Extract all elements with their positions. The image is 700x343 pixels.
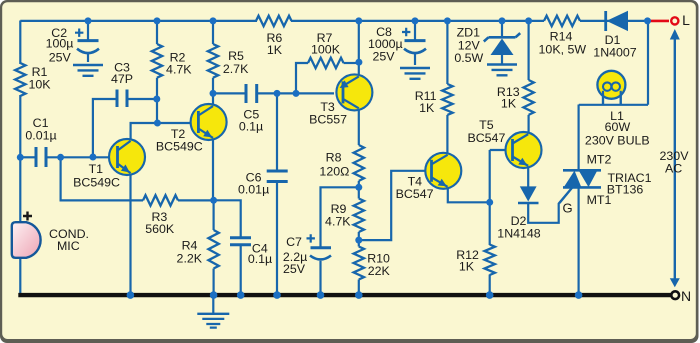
svg-text:BT136: BT136 [607,183,644,197]
svg-text:MIC: MIC [57,239,80,253]
junction [644,17,651,24]
wire [212,78,214,105]
svg-text:0.01µ: 0.01µ [25,128,56,142]
junction [355,237,362,244]
wire [489,275,491,294]
wire [358,232,360,247]
svg-text:N: N [681,288,691,304]
wire [178,199,214,201]
junction [237,291,245,299]
wire [213,92,245,94]
svg-text:BC557: BC557 [309,113,347,127]
wire [358,181,360,199]
wire [577,188,579,294]
wire [20,156,35,158]
resistor R1 [15,63,51,96]
svg-text:47P: 47P [111,72,133,86]
junction [17,154,24,161]
wire [212,21,214,44]
svg-text:22K: 22K [368,264,391,278]
wire [213,269,215,294]
wire [321,187,359,247]
ground [197,296,229,328]
junction [210,17,217,24]
svg-text:R14: R14 [550,29,573,43]
wire [240,245,242,293]
junction [85,17,92,24]
wire [528,188,572,223]
junction [317,291,325,299]
transistor T5 [467,118,541,168]
wire [19,257,21,293]
svg-text:R4: R4 [182,238,198,252]
wire [358,110,360,146]
svg-text:100µ: 100µ [46,37,74,51]
wire [580,20,649,22]
wire [276,182,278,293]
svg-text:230V BULB: 230V BULB [585,133,650,147]
wire [527,167,529,187]
resistor R10 [354,247,391,280]
wire [19,21,21,65]
wire [358,280,360,294]
svg-text:G: G [563,200,573,215]
svg-text:L: L [682,12,690,28]
svg-text:10K: 10K [28,78,51,92]
transistor T2 [156,104,227,154]
wire [20,20,257,22]
wire [93,99,116,157]
wire [448,189,490,203]
svg-text:1K: 1K [459,259,475,273]
diode D1 [593,11,637,60]
capacitor C3 [111,61,133,108]
resistor R9 [325,199,364,233]
wire [131,123,199,140]
wire [258,92,334,94]
capacitor C2 [46,21,103,76]
wire [156,78,158,123]
wire [156,21,158,44]
junction [575,291,583,299]
junction [499,17,506,24]
svg-text:ZD1: ZD1 [457,26,481,40]
resistor R3 [143,195,178,236]
wire [446,21,448,84]
condenser mic MIC [12,212,89,258]
svg-text:MT2: MT2 [587,153,612,167]
svg-text:560K: 560K [145,222,175,236]
svg-text:2.7K: 2.7K [223,62,249,76]
wire [214,200,241,237]
junction [57,154,64,161]
wire [527,115,529,132]
wire [490,149,511,151]
junction [486,199,493,206]
wire [128,98,157,100]
wire [489,202,491,245]
wire [291,20,544,22]
wire [319,261,321,293]
wire [129,174,131,293]
junction [210,197,217,204]
transistor T3 [309,74,372,126]
wire [359,171,431,240]
junction [355,184,362,191]
svg-text:1K: 1K [501,97,517,111]
junction [293,90,300,97]
junction [153,96,160,103]
resistor R12 [456,245,495,276]
svg-text:0.1µ: 0.1µ [239,120,263,134]
svg-text:25V: 25V [283,262,306,276]
wire [61,157,143,200]
svg-text:120Ω: 120Ω [319,164,349,178]
svg-text:1K: 1K [419,101,435,115]
resistor R7 [308,31,344,68]
junction [355,291,363,299]
transistor T4 [396,153,462,201]
svg-text:T1: T1 [89,162,104,176]
terminal L [648,12,691,28]
svg-text:1N4148: 1N4148 [497,227,541,241]
svg-text:R5: R5 [228,49,244,63]
wire [527,21,529,80]
svg-text:25V: 25V [49,50,72,64]
svg-text:0.1µ: 0.1µ [248,252,272,266]
resistor R2 [152,44,192,78]
junction [210,90,217,97]
svg-text:2.2K: 2.2K [177,251,203,265]
svg-text:10K, 5W: 10K, 5W [539,42,587,56]
svg-text:R8: R8 [326,151,342,165]
junction [355,59,362,66]
mains 230V AC arrow [660,29,690,287]
junction [89,154,96,161]
junction [486,291,494,299]
svg-text:C7: C7 [286,235,302,249]
capacitor C4 [230,238,272,266]
svg-text:BC549C: BC549C [156,140,203,154]
diode D2 [497,186,541,240]
wire [296,63,308,93]
wire [276,93,278,170]
wire [577,105,579,171]
resistor R8 [319,145,364,181]
wire [212,140,214,201]
svg-text:0.01µ: 0.01µ [238,182,269,196]
junction [154,120,161,127]
resistor R5 [208,44,249,78]
resistor R13 [497,80,534,115]
svg-text:1K: 1K [267,43,283,57]
junction [127,291,135,299]
svg-text:BC547: BC547 [396,187,434,201]
junction [273,291,281,299]
triac TRIAC1 [560,153,652,216]
svg-text:BC549C: BC549C [73,175,120,189]
wire [344,62,359,64]
capacitor C5 [239,84,263,134]
resistor R11 [415,84,453,115]
svg-text:100K: 100K [311,43,341,57]
svg-text:T5: T5 [479,118,494,132]
svg-text:1N4007: 1N4007 [593,45,637,59]
svg-text:25V: 25V [372,50,395,64]
wire [647,21,649,105]
junction [412,17,419,24]
svg-text:60W: 60W [605,120,631,134]
junction [154,17,161,24]
zener ZD1 [454,26,520,76]
resistor R6 [256,16,292,57]
wire [213,200,215,230]
bulb L1 [585,71,650,148]
resistor R14 [539,16,587,57]
capacitor C7 [283,234,331,276]
terminal N [671,288,691,304]
svg-text:0.5W: 0.5W [454,51,483,65]
transistor T1 [73,139,145,189]
svg-text:BC547: BC547 [467,131,505,145]
svg-text:AC: AC [665,161,682,175]
junction [355,17,362,24]
junction [210,291,218,299]
svg-text:4.7K: 4.7K [166,62,192,76]
wire [489,150,491,203]
resistor R4 [177,230,219,269]
wire [579,104,648,106]
capacitor C1 [25,116,56,167]
wire [358,21,360,75]
capacitor C6 [238,171,288,197]
svg-text:4.7K: 4.7K [325,215,351,229]
wire [446,115,448,153]
junction [274,90,281,97]
wire [501,21,503,38]
wire [47,156,117,158]
wire [19,95,21,223]
junction [444,17,451,24]
capacitor C8 [368,25,430,79]
wire [414,21,416,40]
ground rail [18,293,671,297]
junction [525,17,532,24]
